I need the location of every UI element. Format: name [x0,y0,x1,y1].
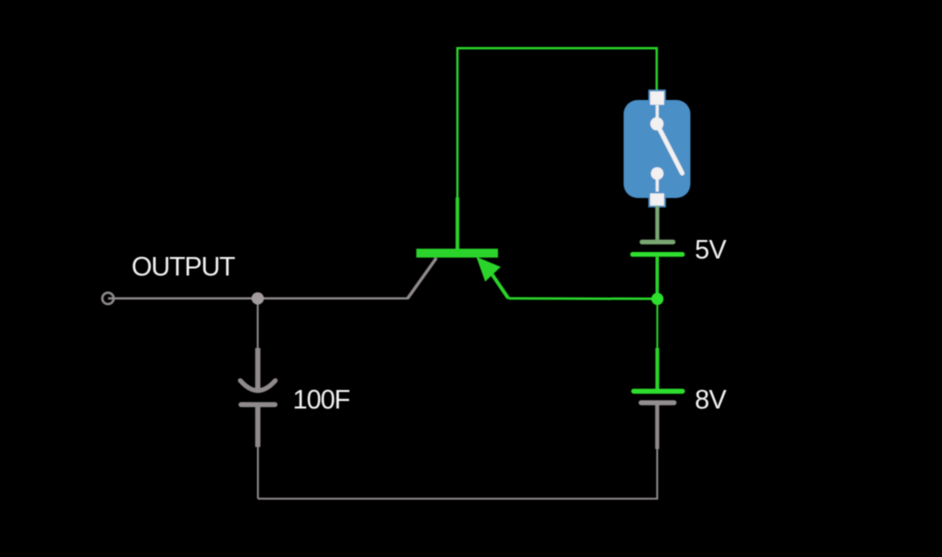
node A (output junction) [252,292,264,304]
relay / switch S1 [624,91,691,207]
transistor Q1 (PNP) [408,198,509,299]
wire: node A to transistor base [258,297,409,299]
node B (emitter junction) [651,293,663,305]
wire: 8V battery to bottom rail [258,449,657,499]
wire: transistor emitter to node B [508,297,652,300]
svg-text:5V: 5V [695,235,727,265]
battery V1 5V [633,242,683,294]
terminal (output post) [102,293,113,304]
capacitor C1 (100F, polarized) [240,348,275,447]
wire: collector to relay (top rail) [457,48,656,197]
svg-text:100F: 100F [293,385,351,415]
wire: node A to capacitor [257,305,259,349]
wire: bottom rail to capacitor [257,447,259,499]
wire: terminal to output node [108,297,258,299]
svg-text:8V: 8V [695,385,727,415]
battery V2 8V [634,348,683,449]
wire: node B to 8V battery [656,305,658,348]
svg-text:OUTPUT: OUTPUT [132,252,236,282]
wire: relay to 5V battery (negative lead) [655,206,659,240]
